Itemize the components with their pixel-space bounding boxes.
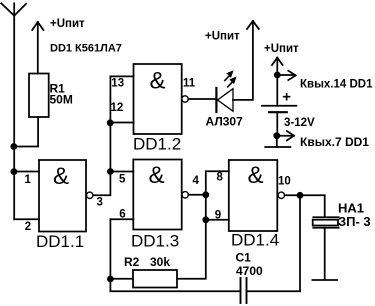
wire mast to pin2	[14, 218, 39, 220]
svg-text:12: 12	[111, 102, 124, 114]
resistor R2	[133, 270, 177, 288]
node pin5/A	[107, 168, 114, 175]
wire pin3 to node A	[94, 172, 111, 196]
svg-text:&: &	[149, 162, 165, 189]
svg-text:+Uпит: +Uпит	[205, 31, 240, 43]
svg-text:DD1.4: DD1.4	[231, 231, 279, 250]
wire node B to pin8	[206, 171, 229, 195]
svg-text:DD1 К561ЛА7: DD1 К561ЛА7	[50, 43, 122, 55]
svg-text:Квых.14 DD1: Квых.14 DD1	[300, 79, 373, 91]
piezo HA1 crystal box	[313, 220, 338, 226]
capacitor C1 left plate	[240, 278, 242, 303]
wire R1 bottom to mast node	[14, 117, 38, 147]
wire pin10 to HA1	[285, 194, 325, 196]
wire pin4 to node B	[189, 194, 206, 196]
svg-text:&: &	[53, 163, 69, 190]
svg-text:ЗП- 3: ЗП- 3	[338, 214, 371, 229]
wire pin9 node down to R2 right	[177, 220, 206, 279]
power arrow +Upit (R1)	[32, 22, 43, 74]
wire bottom bus right segment	[247, 290, 300, 292]
wire bottom bus left segment	[110, 290, 239, 292]
svg-text:4700: 4700	[236, 264, 263, 278]
node pin1	[11, 168, 18, 175]
wire node C down to bottom bus	[299, 195, 301, 291]
svg-text:4: 4	[193, 175, 200, 187]
svg-text:13: 13	[111, 77, 124, 89]
node Kvyh14	[274, 72, 281, 79]
svg-text:R2: R2	[124, 255, 140, 269]
svg-text:DD1.1: DD1.1	[36, 232, 84, 251]
capacitor C1 right plate	[246, 278, 248, 303]
wire node to pin1	[14, 171, 39, 173]
svg-text:9: 9	[215, 210, 221, 222]
node C output DD1.4	[297, 192, 304, 199]
battery minus terminal bar	[265, 146, 290, 148]
LED VD1 AL307 cathode bar	[215, 88, 217, 112]
antenna WA1	[1, 3, 26, 15]
LED triangle	[218, 89, 234, 112]
battery GB1 negative plate	[269, 111, 287, 113]
svg-text:АЛ307: АЛ307	[206, 115, 244, 129]
wire below Kvyh7 node	[276, 136, 278, 147]
wire antenna mast	[13, 16, 15, 220]
svg-text:2: 2	[25, 221, 31, 233]
LED light arrow 2	[228, 77, 237, 87]
piezo HA1 top plate	[313, 216, 338, 218]
svg-text:3-12V: 3-12V	[284, 117, 315, 129]
svg-text:8: 8	[217, 172, 224, 184]
LED light arrow 1	[225, 70, 234, 80]
NAND gate DD1.2	[134, 64, 182, 134]
svg-text:&: &	[248, 162, 264, 189]
wire pin12	[110, 122, 133, 124]
svg-text:+Uпит: +Uпит	[50, 18, 85, 30]
node Kvyh7	[273, 132, 280, 139]
node pin12	[107, 119, 114, 126]
svg-text:50M: 50M	[50, 93, 73, 107]
node R1/mast	[10, 143, 17, 150]
arrow Kvyh14	[277, 71, 295, 80]
svg-text:+Uпит: +Uпит	[264, 43, 299, 55]
HA1 bottom terminal bar	[312, 279, 337, 281]
battery up arrow +Upit	[272, 58, 283, 75]
wire node B to pin9	[206, 195, 229, 220]
wire pin6 down to R2 node	[109, 219, 111, 279]
junction node dots	[10, 72, 303, 283]
NAND gate DD1.4	[229, 160, 277, 231]
wire battery top	[276, 75, 278, 106]
svg-text:C1: C1	[236, 251, 252, 265]
wire HA1 lead down	[324, 195, 326, 217]
node R2 left	[107, 276, 114, 283]
wire pin11 to LED	[188, 98, 215, 100]
NAND gate DD1.3	[133, 160, 181, 230]
wire node A vertical to pin13	[109, 76, 111, 171]
node B upper	[202, 191, 209, 198]
wire pin13	[110, 75, 133, 77]
svg-text:DD1.2: DD1.2	[133, 135, 181, 154]
piezo HA1 bottom plate	[313, 227, 338, 229]
svg-text:11: 11	[183, 77, 196, 89]
NAND gate DD1.1	[39, 160, 86, 232]
gate DD1.1 output bubble pin3	[87, 192, 93, 198]
svg-text:10: 10	[278, 176, 291, 188]
wire R2 left lead	[110, 278, 133, 280]
svg-text:&: &	[150, 68, 166, 95]
resistor R1	[29, 74, 49, 118]
wire battery bottom	[276, 112, 278, 136]
svg-text:+: +	[282, 89, 291, 106]
svg-text:3: 3	[97, 197, 103, 209]
svg-text:Квых.7 DD1: Квых.7 DD1	[300, 135, 369, 149]
wire pin6	[110, 218, 133, 220]
svg-text:DD1.3: DD1.3	[131, 232, 179, 251]
gate DD1.4 output bubble pin10	[278, 192, 284, 198]
arrow Kvyh7	[277, 131, 294, 140]
power arrow +Upit (LED) head	[247, 21, 259, 29]
svg-text:5: 5	[119, 174, 126, 186]
gate DD1.2 output bubble pin11	[182, 96, 188, 102]
wire LED anode up	[233, 21, 253, 100]
svg-text:30k: 30k	[150, 255, 170, 269]
gate DD1.3 output bubble pin4	[182, 192, 188, 198]
wire R2 node down	[109, 279, 111, 291]
wire pin5	[110, 171, 133, 173]
node B lower pin9	[202, 216, 209, 223]
svg-text:6: 6	[119, 208, 125, 220]
svg-text:1: 1	[25, 174, 32, 186]
wire HA1 bottom lead	[324, 228, 326, 280]
battery GB1 positive plate	[262, 105, 296, 107]
